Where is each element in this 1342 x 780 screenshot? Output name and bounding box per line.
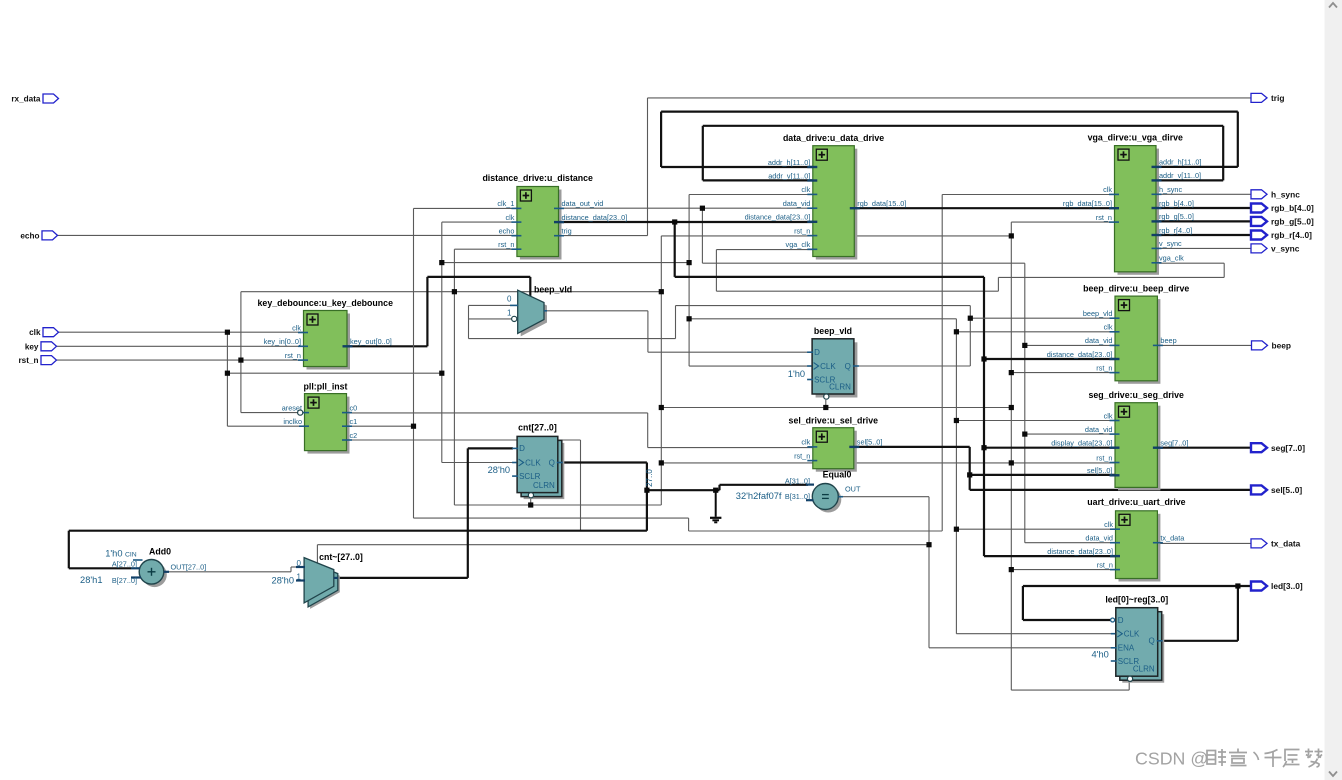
svg-text:echo: echo [499, 227, 515, 236]
output pin trig [1251, 93, 1285, 103]
wire net clk (input clock distribution) [56, 195, 1116, 634]
output pin seg [1251, 443, 1305, 453]
junction beep_vld port [968, 316, 973, 321]
svg-text:sel[5..0]: sel[5..0] [857, 438, 883, 447]
svg-text:v_sync: v_sync [1271, 244, 1300, 254]
svg-text:sel[5..0]: sel[5..0] [1271, 485, 1302, 495]
svg-text:27..0: 27..0 [645, 469, 654, 487]
module block distance_drive:u_distance [482, 173, 627, 260]
junction rst_n top rail [1009, 233, 1014, 238]
svg-text:distance_data[23..0]: distance_data[23..0] [745, 213, 811, 222]
scrollbar arrow up [1329, 3, 1337, 8]
svg-text:CLK: CLK [525, 458, 541, 467]
wire net c0 (pll c0 to sel_drive clk) [347, 413, 813, 448]
svg-text:key: key [25, 342, 39, 351]
svg-text:rgb_r[4..0]: rgb_r[4..0] [1159, 226, 1192, 235]
svg-text:1'h0: 1'h0 [105, 549, 122, 559]
svg-text:ENA: ENA [1118, 644, 1135, 653]
svg-text:28'h1: 28'h1 [80, 575, 102, 585]
wire net rgb_data bus [854, 207, 1114, 209]
svg-text:key_in[0..0]: key_in[0..0] [264, 337, 301, 346]
svg-text:distance_data[23..0]: distance_data[23..0] [562, 213, 628, 222]
svg-text:D: D [1118, 616, 1124, 625]
svg-text:distance_drive:u_distance: distance_drive:u_distance [482, 173, 593, 183]
ground symbol [710, 518, 721, 523]
junction clrn right rail [1009, 405, 1014, 410]
svg-text:clk: clk [801, 185, 810, 194]
svg-text:CLRN: CLRN [1133, 665, 1155, 674]
junction rst_n riser [452, 289, 457, 294]
svg-text:rst_n: rst_n [1096, 363, 1112, 372]
svg-text:B[27..0]: B[27..0] [112, 576, 137, 585]
junction rst_n seg row [659, 460, 664, 465]
svg-text:rst_n: rst_n [794, 451, 810, 460]
junction data_vid tap [700, 206, 705, 211]
svg-text:CLK: CLK [1124, 630, 1140, 639]
junction beep distance_data [981, 356, 986, 361]
svg-text:beep_vld: beep_vld [534, 284, 572, 294]
svg-text:rgb_g[5..0]: rgb_g[5..0] [1271, 217, 1314, 227]
output pin beep [1252, 341, 1292, 351]
module block pll:pll_inst [282, 381, 358, 453]
svg-text:1'h0: 1'h0 [788, 369, 805, 379]
junction clk pin rail [225, 330, 230, 335]
module block vga_dirve:u_vga_dirve [1063, 133, 1202, 275]
junction beep clk [954, 329, 959, 334]
svg-text:inclko: inclko [283, 417, 302, 426]
svg-text:rx_data: rx_data [11, 95, 41, 104]
svg-text:Add0: Add0 [149, 547, 171, 557]
output pin sel [1251, 485, 1302, 495]
svg-text:CLRN: CLRN [829, 382, 851, 391]
svg-text:28'h0: 28'h0 [488, 465, 510, 475]
svg-text:v_sync: v_sync [1159, 239, 1182, 248]
svg-text:CLRN: CLRN [533, 481, 555, 490]
wire net key (key input) [55, 345, 304, 347]
svg-text:h_sync: h_sync [1159, 185, 1182, 194]
svg-text:beep_vld: beep_vld [1083, 309, 1113, 318]
junction seg clk [954, 418, 959, 423]
wire net Add0 OUT to cnt~ mux input 0 [164, 567, 305, 572]
watermark CSDN [1135, 749, 1323, 769]
svg-text:uart_drive:u_uart_drive: uart_drive:u_uart_drive [1087, 497, 1185, 507]
junction clk to pll [225, 371, 230, 376]
wire net distance_data bus [559, 222, 1116, 556]
svg-text:0: 0 [507, 295, 512, 304]
svg-text:clk: clk [505, 213, 514, 222]
junction seg sel [967, 472, 972, 477]
input pin echo [20, 231, 57, 241]
svg-text:led[0]~reg[3..0]: led[0]~reg[3..0] [1105, 595, 1168, 605]
pll areset inverter bubble [298, 410, 303, 415]
output pin rgb_g [1251, 217, 1314, 227]
svg-text:CIN: CIN [125, 552, 137, 559]
junction beep rst_n [1009, 370, 1014, 375]
wire net rst_n (reset distribution) [56, 222, 1129, 690]
svg-text:rst_n: rst_n [1097, 560, 1113, 569]
svg-text:led[3..0]: led[3..0] [1271, 581, 1303, 591]
svg-text:addr_h[11..0]: addr_h[11..0] [1159, 158, 1201, 167]
comparator Equal0 [736, 470, 861, 513]
svg-text:OUT[27..0]: OUT[27..0] [171, 562, 207, 571]
wire net c1 (pll c1 to distance clk_1 and vga clk) [347, 195, 1115, 532]
output pin led [1251, 581, 1303, 591]
svg-text:data_vid: data_vid [1085, 336, 1113, 345]
junction rst_n mid rail [659, 289, 664, 294]
register cnt[27..0] [488, 423, 565, 500]
junction gnd merge [713, 488, 718, 493]
mux beep_vld [507, 284, 572, 336]
svg-text:clk: clk [1103, 185, 1112, 194]
svg-text:data_vid: data_vid [1085, 425, 1113, 434]
wire beep to pin [1157, 344, 1251, 346]
svg-text:seg_drive:u_seg_drive: seg_drive:u_seg_drive [1089, 390, 1184, 400]
svg-text:0: 0 [297, 559, 302, 568]
register beep_vld [788, 326, 859, 399]
svg-text:sel_drive:u_sel_drive: sel_drive:u_sel_drive [789, 415, 879, 425]
svg-text:seg[7..0]: seg[7..0] [1271, 443, 1305, 453]
svg-text:sel[5..0]: sel[5..0] [1087, 466, 1113, 475]
svg-text:rst_n: rst_n [1096, 453, 1112, 462]
svg-text:beep_vld: beep_vld [814, 326, 852, 336]
output pin h_sync [1251, 190, 1300, 200]
svg-text:1: 1 [507, 308, 512, 317]
module block beep_dirve:u_beep_dirve [1047, 284, 1190, 384]
svg-text:seg[7..0]: seg[7..0] [1160, 439, 1188, 448]
svg-text:Equal0: Equal0 [823, 470, 852, 480]
svg-text:addr_h[11..0]: addr_h[11..0] [768, 158, 810, 167]
svg-text:D: D [814, 348, 820, 357]
svg-text:OUT: OUT [845, 485, 861, 494]
svg-text:clk: clk [801, 438, 810, 447]
wire net led register Q loop and output [1023, 586, 1251, 641]
module block uart_drive:u_uart_drive [1047, 497, 1185, 582]
svg-text:key_debounce:u_key_debounce: key_debounce:u_key_debounce [258, 298, 394, 308]
svg-text:trig: trig [562, 227, 572, 236]
wire net cnt~ mux out bus to cnt D [334, 448, 513, 578]
junction clrn rail [659, 405, 664, 410]
junction distance_data tap [672, 219, 677, 224]
svg-text:h_sync: h_sync [1271, 190, 1300, 200]
junction cnt~ select [926, 542, 931, 547]
wire net addr_v bus [703, 126, 1223, 181]
module block seg_drive:u_seg_drive [1051, 390, 1188, 491]
scrollbar track right [1325, 0, 1342, 780]
wire net key_out (key_debounce output to mux select, bus) [347, 277, 530, 346]
svg-text:beep_dirve:u_beep_dirve: beep_dirve:u_beep_dirve [1083, 284, 1189, 294]
wire net sel bus [854, 447, 1251, 490]
svg-text:addr_v[11..0]: addr_v[11..0] [1159, 171, 1201, 180]
svg-text:c1: c1 [350, 417, 358, 426]
junction seg data_vid [1022, 432, 1027, 437]
svg-text:c0: c0 [350, 403, 358, 412]
wire net echo (echo input) [56, 234, 517, 236]
svg-text:distance_data[23..0]: distance_data[23..0] [1047, 547, 1113, 556]
svg-text:Q: Q [1148, 637, 1154, 646]
junction clk riser [439, 371, 444, 376]
module block sel_drive:u_sel_drive [789, 415, 883, 471]
wire seg bus to pin [1157, 447, 1251, 449]
svg-text:c2: c2 [350, 431, 358, 440]
svg-text:rst_n: rst_n [285, 351, 301, 360]
svg-text:clk: clk [29, 328, 41, 337]
scrollbar arrow down [1329, 772, 1337, 777]
junction seg display_data [981, 445, 986, 450]
wire net vga_clk loop [716, 250, 1224, 292]
output pin v_sync [1251, 244, 1300, 254]
register led[0]~reg[3..0] [1092, 595, 1169, 683]
svg-text:Q: Q [845, 362, 851, 371]
junction beep_vld reg clrn [823, 405, 828, 410]
svg-text:A[27..0]: A[27..0] [112, 560, 137, 569]
svg-text:beep: beep [1272, 341, 1292, 351]
junction clk branch east [439, 260, 444, 265]
svg-text:A[31..0]: A[31..0] [785, 476, 810, 485]
svg-text:28'h0: 28'h0 [272, 575, 294, 585]
svg-text:tx_data: tx_data [1160, 534, 1185, 543]
svg-text:data_out_vid: data_out_vid [562, 199, 604, 208]
svg-text:B[31..0]: B[31..0] [785, 492, 810, 501]
svg-text:vga_clk: vga_clk [786, 240, 811, 249]
svg-text:32'h2faf07f: 32'h2faf07f [736, 491, 782, 501]
svg-text:Q: Q [549, 458, 555, 467]
junction clk to right rail [687, 316, 692, 321]
wire net trig [559, 98, 1252, 236]
svg-text:rst_n: rst_n [18, 356, 38, 365]
svg-text:tx_data: tx_data [1271, 539, 1301, 549]
wire rgb_g bus to pin [1157, 220, 1251, 222]
svg-text:CLK: CLK [820, 362, 836, 371]
junction pll c1 [411, 424, 416, 429]
wire net beep_vld register Q feedback [469, 305, 1116, 366]
svg-text:trig: trig [1271, 93, 1285, 103]
mux cnt~[27..0] [272, 552, 363, 609]
input pin clk [29, 328, 58, 338]
svg-text:rst_n: rst_n [794, 226, 810, 235]
output pin rgb_b [1251, 203, 1314, 213]
junction beep data_vid [1022, 343, 1027, 348]
output pin rgb_r [1251, 230, 1312, 240]
svg-text:4'h0: 4'h0 [1092, 649, 1109, 659]
svg-text:vga_dirve:u_vga_dirve: vga_dirve:u_vga_dirve [1088, 133, 1183, 143]
wire net cnt Q bus feedback to Add0 and Equal0 [69, 463, 808, 569]
junction led out [1235, 583, 1240, 588]
svg-text:rgb_data[15..0]: rgb_data[15..0] [1063, 199, 1112, 208]
svg-text:rst_n: rst_n [1096, 213, 1112, 222]
wire net data_out_vid / data_vid [559, 208, 1116, 543]
svg-text:rgb_b[4..0]: rgb_b[4..0] [1271, 203, 1314, 213]
svg-text:data_vid: data_vid [1085, 534, 1113, 543]
wire rgb_r bus to pin [1157, 234, 1251, 236]
wire v_sync to pin [1157, 247, 1251, 249]
svg-text:distance_data[23..0]: distance_data[23..0] [1047, 350, 1113, 359]
svg-text:cnt[27..0]: cnt[27..0] [518, 423, 557, 433]
wire gnd branch for Equal0 A upper bits [715, 490, 717, 517]
svg-text:clk: clk [1104, 520, 1113, 529]
svg-text:beep: beep [1160, 336, 1176, 345]
wire net beep_vld mux out to register D [547, 311, 812, 352]
svg-text:rgb_r[4..0]: rgb_r[4..0] [1271, 230, 1312, 240]
svg-text:data_drive:u_data_drive: data_drive:u_data_drive [783, 133, 884, 143]
wire tx_data to pin [1157, 542, 1251, 544]
svg-text:addr_v[11..0]: addr_v[11..0] [768, 171, 810, 180]
svg-text:clk_1: clk_1 [497, 199, 514, 208]
svg-text:key_out[0..0]: key_out[0..0] [350, 337, 392, 346]
junction clk at x689 [687, 260, 692, 265]
svg-text:D: D [519, 444, 525, 453]
svg-text:rgb_data[15..0]: rgb_data[15..0] [857, 199, 906, 208]
svg-text:cnt~[27..0]: cnt~[27..0] [319, 552, 363, 562]
module block key_debounce:u_key_debounce [258, 298, 394, 370]
svg-text:SCLR: SCLR [519, 472, 541, 481]
svg-text:1: 1 [297, 572, 302, 581]
wire net c2 (pll c2) [347, 440, 581, 531]
svg-text:echo: echo [20, 231, 39, 240]
junction uart clk [954, 527, 959, 532]
svg-text:rgb_g[5..0]: rgb_g[5..0] [1159, 212, 1194, 221]
input pin key [25, 342, 57, 352]
svg-text:CSDN @: CSDN @ [1135, 749, 1208, 769]
wire net Equal0 OUT to cnt~ mux select and led ENA [317, 497, 1115, 648]
svg-text:data_vid: data_vid [783, 199, 811, 208]
wire net addr_h bus [661, 112, 1238, 167]
junction seg rst_n [1009, 460, 1014, 465]
svg-text:vga_clk: vga_clk [1159, 254, 1184, 263]
wire rgb_b bus to pin [1157, 207, 1251, 209]
svg-text:pll:pll_inst: pll:pll_inst [304, 381, 348, 391]
wire h_sync to pin [1157, 193, 1251, 195]
junction rst_n pin rail [238, 358, 243, 363]
module block data_drive:u_data_drive [745, 133, 907, 260]
input pin rx_data [11, 94, 58, 104]
junction uart rst_n [1009, 567, 1014, 572]
svg-text:clk: clk [292, 323, 301, 332]
svg-text:display_data[23..0]: display_data[23..0] [1051, 439, 1112, 448]
output pin tx_data [1251, 539, 1301, 549]
junction cnt Q branch [644, 488, 649, 493]
svg-text:clk: clk [1104, 411, 1113, 420]
input pin rst_n [18, 356, 56, 366]
svg-text:rst_n: rst_n [498, 240, 514, 249]
svg-text:clk: clk [1104, 323, 1113, 332]
adder Add0 [80, 547, 206, 588]
svg-text:rgb_b[4..0]: rgb_b[4..0] [1159, 199, 1194, 208]
junction cnt clrn [528, 502, 533, 507]
